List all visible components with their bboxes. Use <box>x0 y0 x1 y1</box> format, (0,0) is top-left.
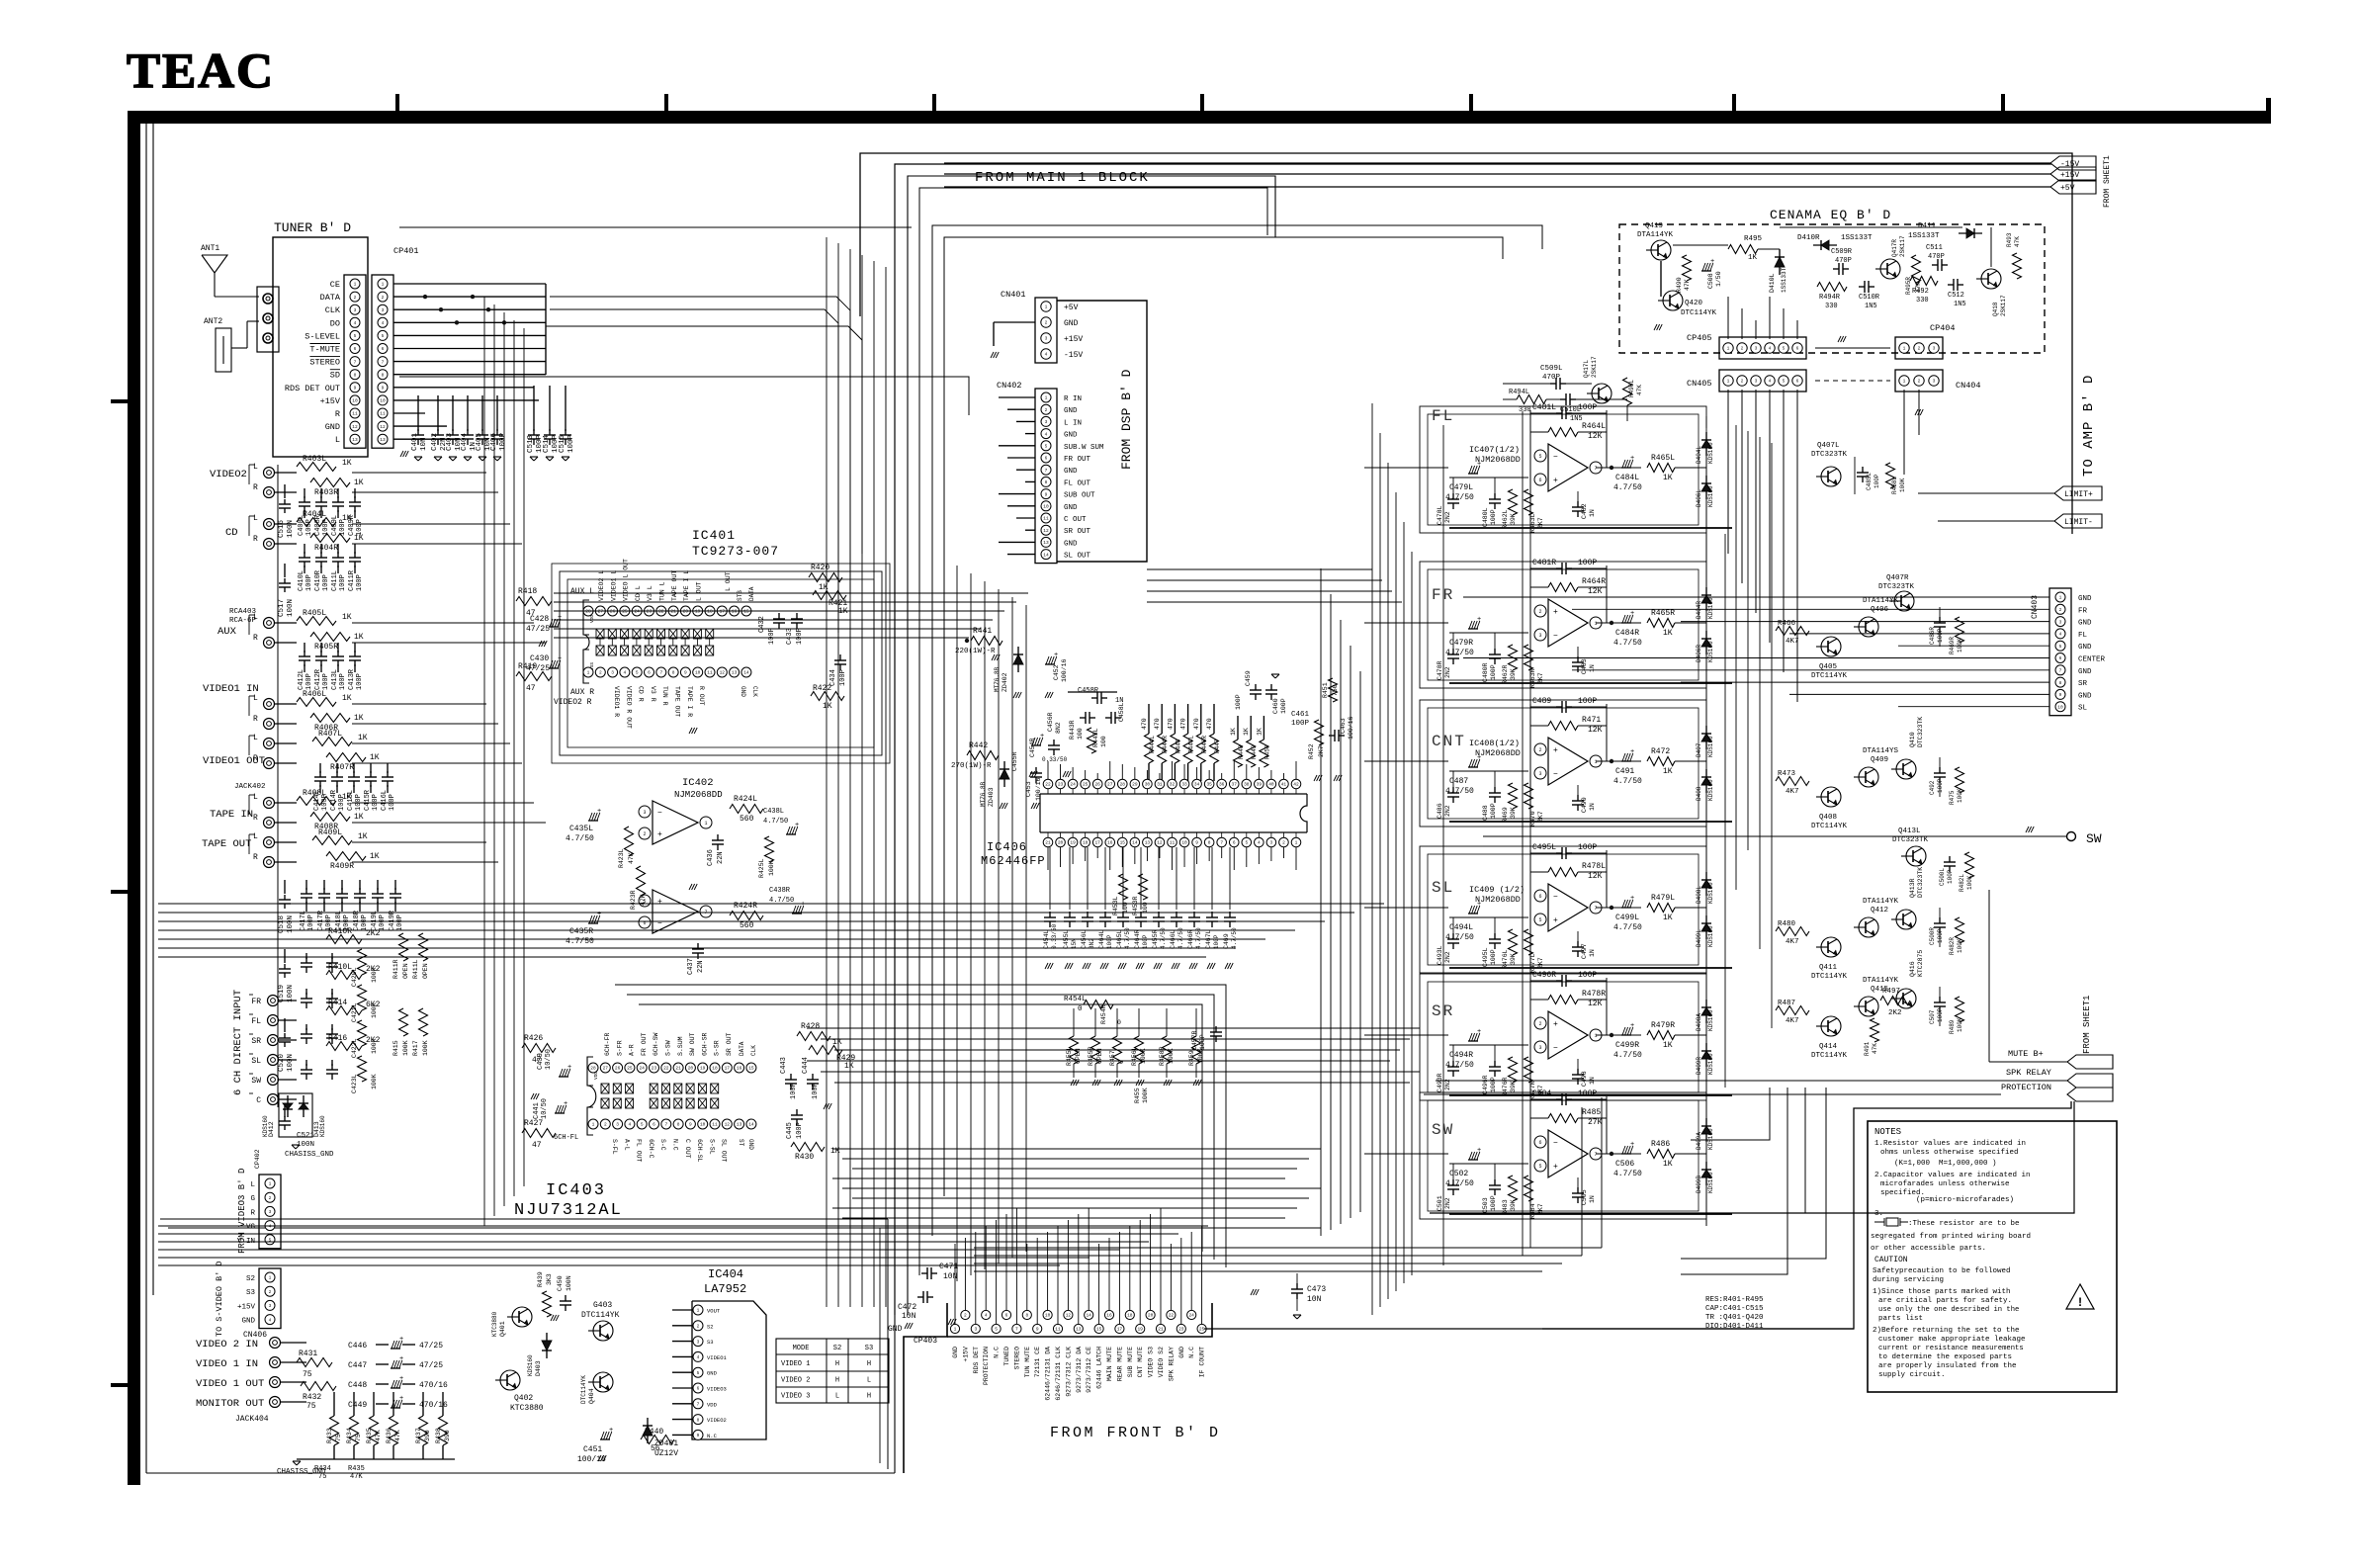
svg-text:+: + <box>1630 748 1634 756</box>
svg-text:100K: 100K <box>1957 788 1963 803</box>
svg-text:IC401: IC401 <box>692 528 736 543</box>
svg-text:C519: C519 <box>278 985 286 1002</box>
svg-text:TAPE OUT: TAPE OUT <box>202 838 251 850</box>
svg-text:C439: C439 <box>537 1053 545 1070</box>
svg-text:R404L: R404L <box>303 510 326 519</box>
svg-text:R455R: R455R <box>1088 1046 1094 1066</box>
svg-text:DTC323TK: DTC323TK <box>1811 451 1848 459</box>
svg-text:CAUTION: CAUTION <box>1874 1256 1908 1264</box>
svg-text:4: 4 <box>2059 632 2062 638</box>
svg-text:STB: STB <box>737 590 743 601</box>
svg-text:2: 2 <box>354 295 357 301</box>
svg-text:VIDEO1 L: VIDEO1 L <box>610 570 617 601</box>
capacitor C428 47/25 <box>549 626 559 628</box>
tuner long bus wires <box>399 226 912 228</box>
dashed link CP405-CP404 <box>1815 347 1890 349</box>
svg-text:C509L: C509L <box>1540 365 1563 373</box>
svg-text:6: 6 <box>1045 456 1048 462</box>
op-amp SW <box>1548 1130 1588 1177</box>
svg-text:22: 22 <box>663 1066 669 1072</box>
svg-text:5: 5 <box>1045 444 1048 450</box>
svg-text:R476R: R476R <box>1502 1077 1509 1096</box>
svg-text:1K: 1K <box>342 793 352 802</box>
svg-text:DTC323TK: DTC323TK <box>1917 867 1924 898</box>
svg-text:S3: S3 <box>707 1339 714 1346</box>
svg-text:100K: 100K <box>371 1074 378 1089</box>
svg-text:25: 25 <box>627 1066 633 1072</box>
svg-text:REAR MUTE: REAR MUTE <box>1116 1347 1123 1381</box>
svg-text:IC407(1/2): IC407(1/2) <box>1469 445 1520 455</box>
svg-text:47K: 47K <box>394 1430 401 1441</box>
svg-text:C502: C502 <box>1449 1170 1468 1178</box>
capacitor row C513-C515 <box>533 386 535 431</box>
svg-text:MAIN MUTE: MAIN MUTE <box>1106 1347 1113 1381</box>
svg-text:SUB.W SUM: SUB.W SUM <box>1064 444 1104 452</box>
svg-text:38: 38 <box>1244 782 1250 788</box>
svg-text:2K2: 2K2 <box>366 1036 381 1045</box>
resistor R431 75 <box>297 1358 332 1367</box>
svg-text:6: 6 <box>1538 478 1541 483</box>
svg-text:330: 330 <box>1825 303 1838 310</box>
svg-text:C500L: C500L <box>1939 868 1946 886</box>
svg-text:DTC323TK: DTC323TK <box>1892 836 1929 844</box>
svg-text:100K: 100K <box>1957 938 1963 953</box>
diode D408A <box>1705 1000 1707 1023</box>
svg-text:26: 26 <box>615 1066 621 1072</box>
svg-text:C405: C405 <box>476 432 483 451</box>
svg-text:6CH-C: 6CH-C <box>648 1139 654 1159</box>
svg-text:11: 11 <box>712 1122 718 1128</box>
svg-text:390: 390 <box>424 1430 431 1441</box>
svg-text:R424L: R424L <box>734 795 757 804</box>
svg-text:47K: 47K <box>628 852 635 864</box>
channel SR output RC <box>1621 1034 1631 1036</box>
svg-text:3: 3 <box>354 307 357 313</box>
svg-text:R403R: R403R <box>314 488 338 497</box>
svg-text:7: 7 <box>1220 840 1223 846</box>
svg-text:4.7/50: 4.7/50 <box>1613 923 1642 932</box>
svg-text:25: 25 <box>1199 1327 1205 1333</box>
svg-text:0.33/50: 0.33/50 <box>1051 923 1058 949</box>
svg-text:4K7: 4K7 <box>1786 938 1799 946</box>
svg-text:6: 6 <box>1796 346 1799 352</box>
svg-text:OPEN: OPEN <box>1075 1048 1082 1064</box>
svg-text:16: 16 <box>737 1066 742 1072</box>
svg-text:S.SUM: S.SUM <box>677 1036 684 1056</box>
svg-text:GND: GND <box>1064 319 1079 328</box>
svg-text:3: 3 <box>1755 346 1758 352</box>
svg-text:4.7/50: 4.7/50 <box>566 937 594 946</box>
svg-text:TAPE I R: TAPE I R <box>686 686 693 717</box>
C521 cap <box>284 1105 286 1117</box>
svg-text:1K: 1K <box>844 1062 854 1071</box>
transistor Q410 <box>1896 759 1916 779</box>
svg-text:CP404: CP404 <box>1930 323 1956 333</box>
transistor Q412 <box>1859 917 1878 937</box>
svg-text:C517: C517 <box>278 599 286 617</box>
svg-text:R486: R486 <box>1651 1140 1670 1149</box>
capacitor C486R 100P <box>1939 607 1941 619</box>
svg-text:PROTECTION: PROTECTION <box>983 1347 990 1385</box>
svg-text:1K: 1K <box>838 607 848 616</box>
mode table <box>776 1339 889 1403</box>
svg-text:100K: 100K <box>1142 1088 1149 1103</box>
svg-text:C410L: C410L <box>298 570 305 591</box>
svg-text:3: 3 <box>269 1209 272 1215</box>
svg-text:24: 24 <box>639 1066 645 1072</box>
svg-text:+: + <box>657 830 662 839</box>
channel FR feedback loop <box>1529 566 1531 680</box>
svg-text:Q412: Q412 <box>1871 907 1888 915</box>
svg-text:KDS160: KDS160 <box>1707 736 1714 757</box>
svg-text:R454R: R454R <box>1100 1004 1107 1024</box>
svg-text:SR: SR <box>2078 680 2088 688</box>
svg-text:ANT2: ANT2 <box>204 317 222 326</box>
svg-text:1SS133T: 1SS133T <box>1781 267 1787 293</box>
svg-text:TUNED: TUNED <box>1003 1347 1010 1366</box>
channel FR C output cap <box>1577 647 1579 658</box>
svg-text:4.7/50: 4.7/50 <box>1613 1170 1642 1178</box>
transistor Q401 KTC3880 <box>512 1307 532 1327</box>
svg-text:SR: SR <box>251 1037 261 1046</box>
svg-text:+15V: +15V <box>2060 171 2079 180</box>
svg-text:47K: 47K <box>1684 279 1691 291</box>
svg-text:VIDEO 2 IN: VIDEO 2 IN <box>196 1339 258 1350</box>
svg-text:13: 13 <box>1145 840 1151 846</box>
svg-text:2K7: 2K7 <box>1318 745 1325 757</box>
svg-text:5: 5 <box>697 1370 700 1376</box>
R418 R415 R417 resistors <box>399 1008 408 1036</box>
svg-text:R476L: R476L <box>1502 949 1509 969</box>
svg-text:C501: C501 <box>1437 1195 1443 1211</box>
svg-text:1K: 1K <box>1663 1160 1673 1169</box>
RC network CD R404 <box>297 518 336 527</box>
svg-text:R473: R473 <box>1778 770 1796 778</box>
svg-text:1K: 1K <box>1663 1041 1673 1050</box>
svg-text:R435: R435 <box>366 1428 373 1443</box>
svg-text:C511: C511 <box>1926 244 1943 252</box>
svg-text:6CH-FR: 6CH-FR <box>604 1032 611 1056</box>
svg-text:+: + <box>1630 610 1634 618</box>
svg-text:10: 10 <box>2057 704 2063 710</box>
svg-text:4.7/50: 4.7/50 <box>1613 777 1642 786</box>
svg-text:2: 2 <box>1918 379 1921 385</box>
resistor R427 47 <box>522 1129 556 1138</box>
svg-text:7: 7 <box>1594 466 1597 472</box>
svg-text:+: + <box>597 911 601 918</box>
svg-text:13: 13 <box>380 437 386 443</box>
svg-text:R423R: R423R <box>630 890 637 910</box>
svg-text:4: 4 <box>1045 431 1048 437</box>
svg-text:R410L: R410L <box>328 963 352 972</box>
svg-text:supply circuit.: supply circuit. <box>1878 1371 1946 1379</box>
svg-text:use only the one described in: use only the one described in the <box>1878 1306 2019 1314</box>
svg-text:R408L: R408L <box>303 789 326 798</box>
svg-text:C499R: C499R <box>1615 1041 1639 1050</box>
svg-text:100P: 100P <box>1490 664 1497 680</box>
svg-text:21: 21 <box>1045 840 1051 846</box>
svg-text:2: 2 <box>643 831 646 837</box>
svg-text:10N: 10N <box>1307 1295 1322 1304</box>
svg-text:FL: FL <box>2078 632 2088 640</box>
svg-text:100: 100 <box>1077 728 1084 740</box>
svg-text:CLK: CLK <box>750 1045 757 1056</box>
svg-text:6: 6 <box>2059 655 2062 661</box>
resistor R482R 100K <box>1956 917 1964 943</box>
resistor column 470 x6 R444-R447 <box>1145 734 1154 763</box>
vertical bus left of IC401 <box>483 297 485 1226</box>
svg-text:-15V: -15V <box>2060 160 2079 169</box>
svg-text:1K: 1K <box>1256 728 1263 736</box>
svg-text:2: 2 <box>697 1324 700 1330</box>
svg-text:DTC114YK: DTC114YK <box>1811 973 1848 981</box>
svg-text:L: L <box>253 832 258 841</box>
svg-text:14: 14 <box>1132 840 1138 846</box>
svg-text:R422: R422 <box>813 684 831 693</box>
svg-text:C487: C487 <box>1449 777 1468 786</box>
svg-text:6CH-SW: 6CH-SW <box>653 1032 659 1056</box>
svg-text:LIMIT+: LIMIT+ <box>2064 490 2093 499</box>
svg-text:1: 1 <box>1045 395 1048 401</box>
svg-text:5: 5 <box>269 1238 272 1244</box>
svg-text:100N: 100N <box>566 1275 572 1291</box>
svg-text:R479R: R479R <box>1651 1021 1675 1030</box>
channel SL feedback loop <box>1529 850 1531 965</box>
svg-text:17: 17 <box>725 1066 731 1072</box>
svg-text:D408L: D408L <box>1696 886 1702 904</box>
svg-text:R495: R495 <box>1744 235 1763 243</box>
svg-text:100N: 100N <box>287 1054 295 1072</box>
resistor R421 1K <box>813 591 846 600</box>
channel CNT feedback loop <box>1529 704 1531 819</box>
svg-text:220(1W)-R: 220(1W)-R <box>955 648 996 655</box>
svg-text:SL: SL <box>2078 705 2088 713</box>
svg-text:VIDEO1: VIDEO1 <box>707 1354 728 1361</box>
svg-text:39K: 39K <box>1510 953 1517 965</box>
svg-text:DTC114YK: DTC114YK <box>1811 672 1848 680</box>
svg-text:CLK: CLK <box>751 686 758 697</box>
svg-text:SL: SL <box>1432 879 1454 897</box>
svg-text:C412L: C412L <box>298 669 305 690</box>
svg-text:VIDEO2: VIDEO2 <box>707 1417 727 1424</box>
svg-text:during servicing: during servicing <box>1873 1276 1944 1284</box>
svg-text:FL: FL <box>251 1017 261 1026</box>
transistor Q418 2SK117 <box>1981 269 2001 289</box>
resistor R487 <box>1776 1006 1809 1015</box>
svg-text:−: − <box>1553 453 1558 462</box>
svg-text:SR: SR <box>1432 1002 1454 1020</box>
diode D406L <box>1705 476 1707 499</box>
svg-text:3: 3 <box>974 1327 977 1333</box>
svg-text:8: 8 <box>2059 680 2062 686</box>
svg-text:R458R: R458R <box>1159 1046 1166 1066</box>
svg-text:62446 LATCH: 62446 LATCH <box>1096 1347 1103 1389</box>
svg-text:1K: 1K <box>370 852 380 861</box>
svg-text:D403: D403 <box>535 1360 542 1376</box>
svg-text:6CH-SR: 6CH-SR <box>701 1032 708 1056</box>
resistor R429 1K <box>809 1046 842 1055</box>
svg-text:100N: 100N <box>287 599 295 617</box>
svg-text:14: 14 <box>748 1122 754 1128</box>
svg-text:1K: 1K <box>354 813 364 822</box>
svg-text:2: 2 <box>2059 607 2062 613</box>
svg-text:KDS160: KDS160 <box>1707 1128 1714 1150</box>
svg-text:C428: C428 <box>530 615 549 624</box>
svg-text:N.C: N.C <box>672 1139 679 1151</box>
svg-text:MTZ6.8B: MTZ6.8B <box>994 666 1001 692</box>
svg-text:R479L: R479L <box>1651 894 1675 903</box>
svg-text:R472: R472 <box>1651 747 1670 756</box>
svg-text:TUNER B' D: TUNER B' D <box>274 220 351 235</box>
svg-text:R475: R475 <box>1949 790 1956 805</box>
svg-text:47K: 47K <box>350 1473 363 1481</box>
svg-text:75: 75 <box>355 1434 362 1441</box>
resistors R453L R453R 100 <box>1119 874 1128 900</box>
svg-text:C498: C498 <box>1581 1071 1588 1087</box>
svg-text:C417L: C417L <box>300 911 307 931</box>
channel SL routing loop <box>1420 846 1706 973</box>
svg-text:9: 9 <box>1195 840 1198 846</box>
svg-text:1SS133T: 1SS133T <box>1841 234 1873 242</box>
diode D409R <box>1705 1043 1707 1067</box>
svg-text:R428: R428 <box>801 1022 820 1031</box>
svg-text:GND: GND <box>2078 692 2092 700</box>
svg-text:100K: 100K <box>1957 1017 1963 1032</box>
svg-text:100P: 100P <box>1937 628 1944 643</box>
svg-text:21: 21 <box>1158 1327 1164 1333</box>
svg-text:2: 2 <box>1538 1021 1541 1027</box>
svg-text:A-R: A-R <box>629 1044 636 1056</box>
svg-text:4: 4 <box>697 1354 700 1360</box>
svg-text:DTA114YS: DTA114YS <box>1863 747 1899 755</box>
svg-text:C510R: C510R <box>1859 294 1880 302</box>
svg-text:L: L <box>253 694 258 703</box>
svg-text:4.7/50: 4.7/50 <box>1613 1051 1642 1060</box>
svg-text:R443L: R443L <box>1092 728 1099 747</box>
svg-text:100P: 100P <box>1937 778 1944 793</box>
svg-text:100P: 100P <box>339 673 347 690</box>
svg-text:72131 CE: 72131 CE <box>1034 1347 1041 1377</box>
svg-text:IF COUNT: IF COUNT <box>1199 1347 1206 1377</box>
svg-text:R462L: R462L <box>1502 509 1509 529</box>
svg-text:4: 4 <box>985 1313 988 1319</box>
diode bus vertical <box>1705 435 1707 1226</box>
svg-text:100P: 100P <box>356 574 364 591</box>
svg-text:10: 10 <box>352 398 358 404</box>
svg-text:are properly insulated from th: are properly insulated from the <box>1878 1362 2017 1370</box>
svg-text:6: 6 <box>697 1386 700 1392</box>
svg-text:100P: 100P <box>1937 928 1944 943</box>
svg-text:3: 3 <box>643 810 646 816</box>
wire frame bottom <box>146 1472 895 1474</box>
svg-text:C469: C469 <box>1223 933 1230 949</box>
svg-text:7: 7 <box>1594 906 1597 912</box>
svg-text:+: + <box>801 901 805 909</box>
svg-text:+: + <box>1630 455 1634 463</box>
svg-text:FL OUT: FL OUT <box>1064 479 1091 487</box>
svg-text:R410R: R410R <box>328 927 352 936</box>
FL EQ wires <box>1503 383 1552 385</box>
svg-text:R469: R469 <box>1502 807 1509 823</box>
svg-text:N.C: N.C <box>1188 1347 1195 1358</box>
svg-text:+: + <box>1477 901 1481 909</box>
svg-text:KTC3880: KTC3880 <box>491 1311 498 1337</box>
svg-text:GND: GND <box>1064 540 1078 548</box>
svg-text:12: 12 <box>725 1122 731 1128</box>
svg-text:C515: C515 <box>559 434 566 453</box>
svg-text:Q407R: Q407R <box>1886 574 1909 582</box>
svg-text:47K: 47K <box>1872 1043 1878 1054</box>
svg-text:12K: 12K <box>1588 872 1603 881</box>
svg-text:4: 4 <box>1045 352 1048 358</box>
diode D408L <box>1705 872 1707 896</box>
svg-text:TO S-VIDEO B' D: TO S-VIDEO B' D <box>215 1261 224 1337</box>
svg-text:4: 4 <box>354 320 357 326</box>
svg-text:23: 23 <box>1058 782 1064 788</box>
svg-text:+5V: +5V <box>1064 304 1079 312</box>
svg-text:0.33/50: 0.33/50 <box>1042 756 1068 763</box>
svg-text:R405R: R405R <box>314 643 338 652</box>
svg-text:1: 1 <box>354 282 357 288</box>
svg-text:DTC114YK: DTC114YK <box>1811 1052 1848 1060</box>
svg-text:5: 5 <box>354 333 357 339</box>
svg-text:+: + <box>1630 1022 1634 1030</box>
svg-text:36: 36 <box>1219 782 1225 788</box>
svg-text:100P: 100P <box>389 794 396 811</box>
capacitor C435R <box>588 922 598 924</box>
svg-text:R435: R435 <box>348 1465 365 1473</box>
svg-text:5: 5 <box>1538 1164 1541 1170</box>
svg-text:TR :Q401-Q420: TR :Q401-Q420 <box>1705 1314 1764 1322</box>
svg-text:47/25: 47/25 <box>419 1361 443 1370</box>
svg-text:100K: 100K <box>1168 1048 1175 1064</box>
svg-text:L: L <box>253 793 258 802</box>
svg-text:1N: 1N <box>1589 664 1596 672</box>
svg-text:C401: C401 <box>411 432 419 451</box>
svg-text:C451: C451 <box>583 1445 602 1454</box>
svg-text:3: 3 <box>1045 336 1048 342</box>
svg-text:R426: R426 <box>524 1034 543 1043</box>
resistor R466 <box>1776 627 1809 636</box>
svg-text:D409R: D409R <box>1696 1057 1702 1075</box>
svg-text:CE: CE <box>330 280 340 290</box>
svg-text:C411L: C411L <box>331 570 339 591</box>
svg-text:R444L: R444L <box>1149 736 1156 753</box>
svg-text:4: 4 <box>1258 840 1261 846</box>
svg-text:1: 1 <box>1594 621 1597 627</box>
svg-text:12: 12 <box>380 424 386 430</box>
svg-text:D412: D412 <box>268 1121 275 1137</box>
coupling caps C516-C520 <box>284 484 286 498</box>
IC403 routing loops right <box>615 985 1226 1267</box>
svg-text:1N: 1N <box>1589 949 1596 957</box>
svg-text:22N: 22N <box>697 960 705 973</box>
svg-text:2: 2 <box>1741 346 1744 352</box>
svg-text:2SK117: 2SK117 <box>1899 235 1906 257</box>
svg-text:+: + <box>1630 895 1634 903</box>
svg-text:100P: 100P <box>372 794 380 811</box>
CENAMA EQ board dashed outline <box>1619 224 2045 353</box>
svg-text:C433: C433 <box>786 628 794 645</box>
svg-text:75: 75 <box>318 1473 326 1481</box>
svg-text:VIDEO 2: VIDEO 2 <box>781 1376 810 1384</box>
svg-text:FROM DSP B' D: FROM DSP B' D <box>1119 369 1134 470</box>
DSP board box FROM DSP B'D <box>1057 301 1147 562</box>
svg-text:22: 22 <box>1045 782 1051 788</box>
svg-text:R438: R438 <box>435 1428 442 1443</box>
svg-text:100P: 100P <box>1490 949 1497 965</box>
svg-text:12K: 12K <box>1588 432 1603 441</box>
